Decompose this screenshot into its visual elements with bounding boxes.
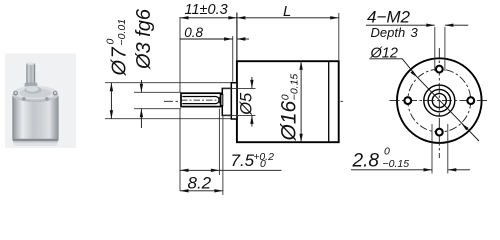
svg-text:4−M2: 4−M2 [367,7,411,26]
svg-text:3: 3 [411,25,419,40]
svg-text:Ø7: Ø7 [109,46,131,77]
dimension 8.2 [180,116,223,195]
dimension Ø12 leader [369,45,479,141]
svg-text:0: 0 [105,39,117,45]
center circles [424,85,455,116]
svg-text:0: 0 [260,158,266,170]
gearbox body 16mm [237,61,339,142]
dimension L [237,3,339,61]
flange 7mm [231,83,237,119]
svg-text:0.8: 0.8 [184,25,203,40]
dimension Ø3 fg6 [133,8,181,128]
hole right [467,97,474,104]
pinion shaft 3mm [181,93,221,106]
dimension 7.5 +0.2/0 [180,109,282,175]
dimension Ø7 0/-0.01 [105,19,232,119]
svg-text:11±0.3: 11±0.3 [185,2,228,18]
svg-text:8.2: 8.2 [188,174,212,193]
svg-text:Ø16: Ø16 [278,100,301,141]
shaft stub [221,95,223,106]
hole top [436,66,443,73]
svg-text:Ø5: Ø5 [238,92,256,116]
svg-text:Ø3 fg6: Ø3 fg6 [133,8,155,70]
dimension 11±0.3 [180,2,237,191]
dimension 2.8 0/-0.15 [351,124,470,174]
hole bottom [436,129,443,136]
dimension 0.8 [180,25,249,82]
outer circle Ø16 [397,58,482,143]
vertical centerline [438,48,440,158]
svg-text:Depth: Depth [371,25,406,40]
svg-text:Ø12: Ø12 [370,45,398,61]
svg-text:L: L [283,3,291,20]
motor cap line [328,61,330,142]
svg-text:−0.15: −0.15 [289,74,301,101]
dimension Ø16 0/-0.15 [278,61,303,142]
centerline [164,100,344,102]
svg-text:−0.01: −0.01 [116,19,128,46]
svg-text:7.5: 7.5 [231,151,255,170]
svg-text:2.8: 2.8 [352,150,380,171]
dimension 4-M2 Depth 3 [366,7,468,71]
photo of gearmotor [5,54,76,149]
hole left [404,97,411,104]
svg-text:−0.15: −0.15 [383,158,410,170]
horizontal centerline [390,100,490,102]
boss 5mm [222,88,231,115]
bolt circle Ø12 [408,69,471,132]
svg-text:0: 0 [384,146,390,158]
dimension Ø5 [223,77,256,127]
